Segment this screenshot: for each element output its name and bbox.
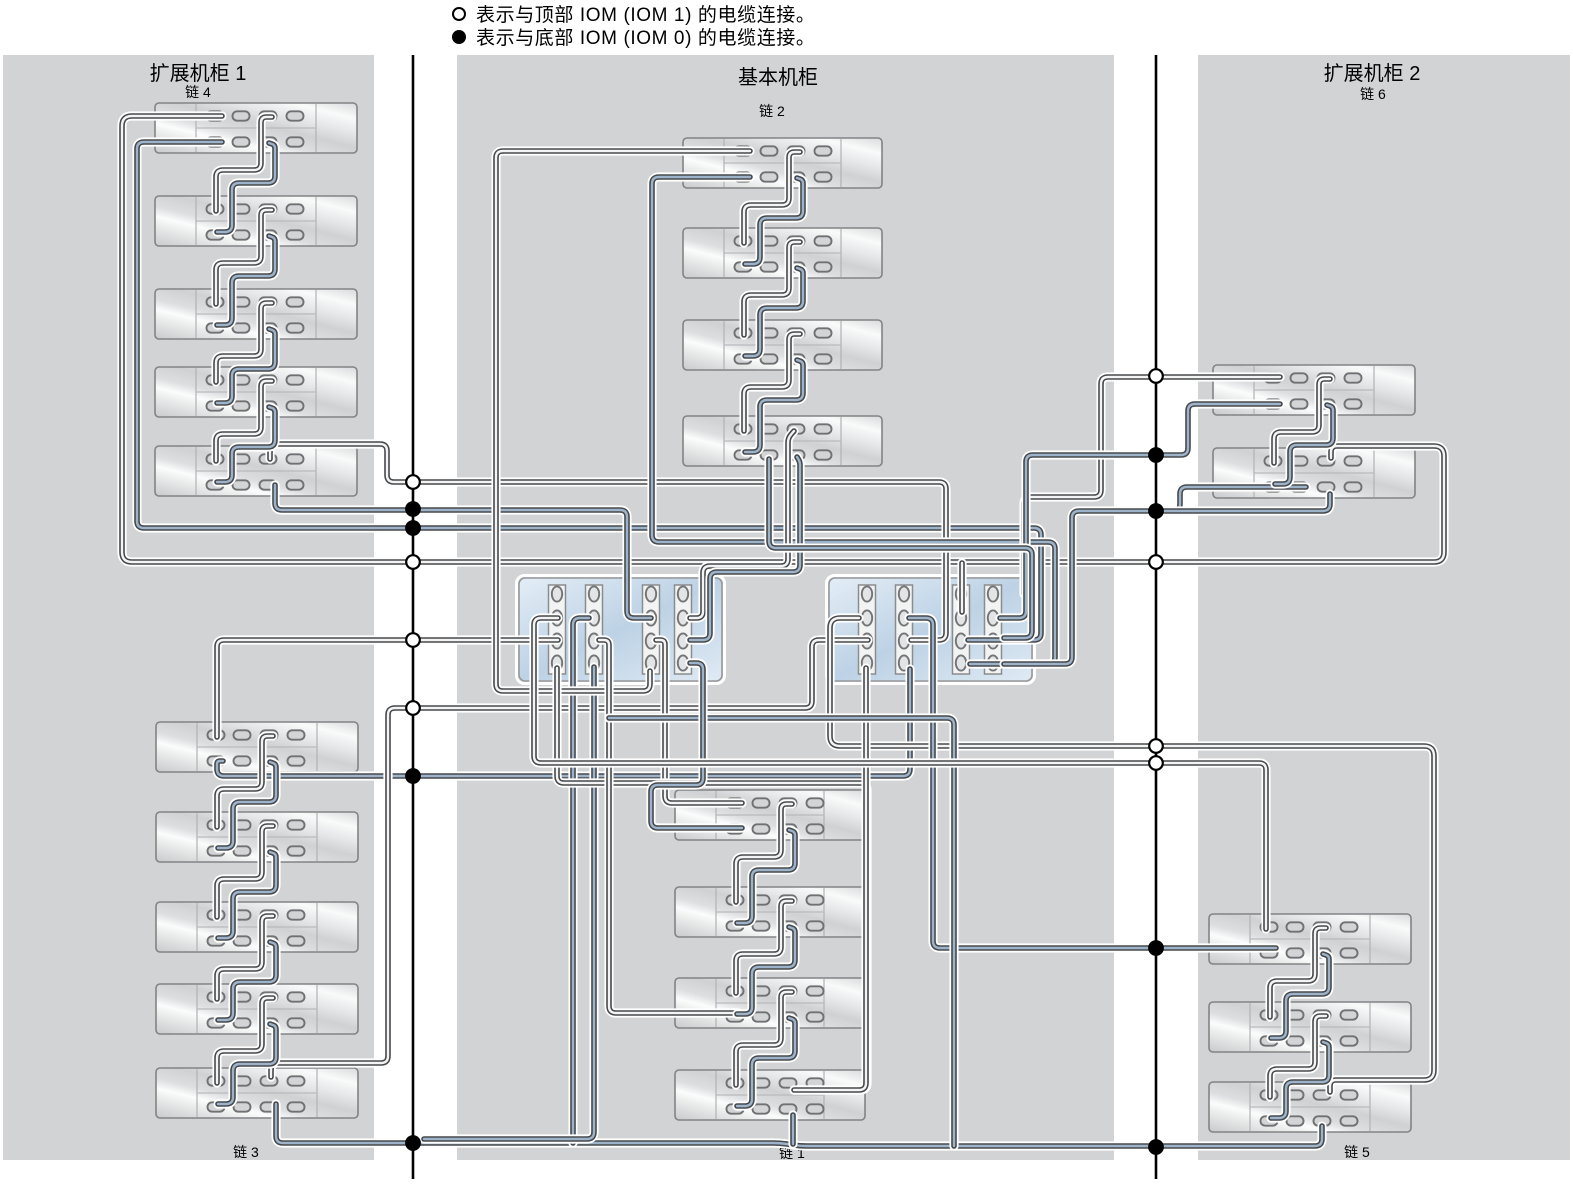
wire chain3 shelf1 IOM0 -> node y776 -> controller2 slot2 port3 [217,669,910,776]
node left boundary y=708 IOM1 [406,701,420,715]
wire chain4 IOM1 shelf1->shelf2 [216,117,272,211]
wire chain2 shelf1 IOM0 -> y542 -> controller2 slot3 port3 [652,177,1055,664]
disk shelf expansion1 chain3 #4 [156,984,358,1034]
wire controller2 slot4 port3 -> node y511 -> chain6 shelf2 IOM0 [1004,487,1306,664]
wire controller2 slot4 -> node y376 -> chain6 shelf1 IOM1 [1024,377,1280,594]
wire chain2 IOM0 shelf1->shelf2 [745,178,803,264]
rack boundary line right [1155,55,1158,1179]
wire chain5 IOM0 shelf1->shelf2 [1271,954,1329,1038]
wire chain2 shelf4 port2 IOM0 -> y548 -> controller2 slot4 port2 [769,459,1032,638]
svg-text:链 3: 链 3 [233,1144,259,1160]
wire controller1 slot3 port2 -> chain1 shelf1 IOM1 [656,640,742,803]
wire chain4 IOM0 shelf4->shelf5 [217,407,275,482]
disk shelf expansion1 chain4 #3 [155,289,357,339]
node left boundary y=482 IOM1 [406,475,420,489]
node right boundary y=763 IOM1 [1149,756,1163,770]
wire chain4 IOM1 shelf3->shelf4 [216,303,272,382]
disk shelf base chain1 #2 [675,887,865,937]
disk shelf expansion1 chain4 #4 [155,367,357,417]
disk shelf base chain2 #3 [683,320,882,370]
disk shelf expansion1 chain3 #2 [156,812,358,862]
wire chain4 shelf5 IOM0 -> y510 -> controller1 slot3 port1 [275,485,651,618]
wire chain3 shelf5 IOM0 -> bottom run y1144 -> chain5 shelf3 IOM0 [276,1104,1322,1146]
wire chain1 IOM1 shelf3->shelf4 [736,992,792,1085]
svg-text:基本机柜: 基本机柜 [738,66,818,89]
svg-text:链 4: 链 4 [185,84,211,100]
wire chain2 shelf4 IOM0 -> controller1 slot4 port2 [690,457,800,640]
node left boundary y=509 IOM0 [406,502,420,516]
disk shelf expansion2 chain5 #1 [1209,914,1411,964]
wire chain4 IOM0 shelf1->shelf2 [217,143,275,232]
wire chain2 IOM1 shelf2->shelf3 [744,242,800,335]
node right boundary y=562 IOM1 [1149,555,1163,569]
wire chain3 IOM1 shelf2->shelf3 [217,826,273,917]
svg-text:链 5: 链 5 [1344,1144,1370,1160]
rack boundary line left [412,55,415,1179]
wire chain2 IOM0 shelf2->shelf3 [745,268,803,356]
wire chain1 IOM1 shelf1->shelf2 [736,804,792,902]
svg-text:链 6: 链 6 [1360,86,1386,102]
wire chain4 IOM0 shelf3->shelf4 [217,329,275,403]
node right boundary y=455 IOM0 [1149,448,1163,462]
svg-text:表示与底部 IOM (IOM 0) 的电缆连接。: 表示与底部 IOM (IOM 0) 的电缆连接。 [476,27,816,49]
disk shelf expansion2 chain6 #2 [1213,448,1415,498]
disk shelf expansion1 chain3 #3 [156,902,358,952]
svg-text:表示与顶部 IOM (IOM 1) 的电缆连接。: 表示与顶部 IOM (IOM 1) 的电缆连接。 [476,4,816,26]
wire controller2 slot2 port1 -> node y948 -> chain5 shelf1 IOM0 [909,618,1276,948]
wire controller1 slot2 port3 -> bottom run [424,667,594,1139]
node left boundary y=640 IOM1 [406,633,420,647]
wire chain6 IOM1 shelf1->shelf2 [1274,379,1330,463]
wire controller2 slot1 port1 -> node y746 -> chain5 shelf3 IOM1 [830,618,1434,1092]
disk shelf expansion1 chain3 #5 [156,1068,358,1118]
wire chain3 IOM0 shelf1->shelf2 [218,762,276,848]
svg-text:扩展机柜 1: 扩展机柜 1 [150,62,247,85]
wire controller1 slot1 port3 -> y783 -> chain1 shelf4 IOM1 [557,668,867,1090]
disk shelf expansion1 chain3 #1 [156,722,358,772]
wire controller2 slot1 port3 -> chain1 shelf4 IOM1 [794,668,866,1090]
wire chain1 shelf4 IOM0 -> bottom run [788,1115,797,1144]
wire chain1 IOM0 shelf3->shelf4 [737,1018,795,1106]
wire controller1 slot4 port3 -> chain1 shelf1 IOM0 [651,663,742,828]
wire chain2 shelf4 IOM1 -> controller1 slot4 port1 [690,431,794,618]
svg-text:扩展机柜 2: 扩展机柜 2 [1324,62,1421,85]
wire controller2 slot4 port1 -> node y455 -> chain6 shelf1 IOM0 [1000,404,1280,618]
svg-text:链 2: 链 2 [759,103,785,119]
wire controller1 slot1 port1 -> node y763 -> chain5 shelf1 IOM1 [534,618,1266,929]
wire chain1 IOM0 shelf1->shelf2 [737,830,795,923]
disk shelf expansion2 chain5 #2 [1209,1002,1411,1052]
node right boundary y=948 IOM0 [1149,941,1163,955]
wire chain6 IOM0 shelf1->shelf2 [1275,405,1333,484]
node left boundary y=562 IOM1 [406,555,420,569]
wire chain5 IOM0 shelf2->shelf3 [1271,1042,1329,1118]
wire chain2 IOM1 shelf3->shelf4 [744,334,800,431]
rack panel expansion cabinet 1 [3,55,374,1160]
wire chain6 shelf2 IOM0 exit -> node y511 [1156,494,1330,511]
wire chain3 IOM1 shelf3->shelf4 [217,916,273,999]
wire chain4 shelf1 IOM0 -> y528 -> controller2 slot3 port2 [137,142,1041,640]
wire controller1 slot2 port1 -> bottom run [573,618,589,1143]
wire chain5 IOM1 shelf2->shelf3 [1270,1016,1326,1097]
legend circle IOM0 [453,31,465,43]
disk shelf base chain2 #2 [683,228,882,278]
node left boundary y=528 IOM0 [406,521,420,535]
wire chain3 IOM0 shelf2->shelf3 [218,852,276,938]
wire chain1 IOM1 shelf2->shelf3 [736,901,792,993]
wire chain3 IOM1 shelf4->shelf5 [217,998,273,1083]
disk shelf base chain2 #4 [683,416,882,466]
wire controller1 slot2 port2 -> chain1 shelf3 IOM0 [599,640,738,1013]
disk shelf expansion1 chain4 #1 [155,103,357,153]
wire chain4 IOM1 shelf2->shelf3 [216,210,272,304]
legend circle IOM1 [453,8,465,20]
disk shelf base chain1 #3 [675,978,865,1028]
disk shelf expansion1 chain4 #2 [155,196,357,246]
wire chain3 shelf1 IOM1 -> node y640 -> controller1 slot1 port2 [217,640,558,737]
wire chain3 shelf5 IOM1 -> node y708 -> controller2 slot1 port2 [271,640,868,1077]
disk shelf base chain2 #1 [683,138,882,188]
disk shelf expansion1 chain4 #5 [155,446,357,496]
wire chain2 IOM0 shelf3->shelf4 [745,360,803,452]
node left boundary y=776 IOM0 [406,769,420,783]
node right boundary y=376 IOM1 [1149,369,1163,383]
wire chain4 shelf5 IOM1 -> y482 -> controller2 slot2 port2 [270,444,946,640]
node right boundary y=511 IOM0 [1149,504,1163,518]
controller U1 (left) [517,576,725,684]
wire stub y562 -> controller2 slot3 port1 [957,563,966,612]
wire chain4 shelf1 IOM1 -> long run y562 -> chain6 loop [122,116,1444,562]
disk shelf expansion2 chain5 #3 [1209,1082,1411,1132]
wire chain3 IOM0 shelf3->shelf4 [218,942,276,1020]
wire y718 run -> bottom run junction [609,718,954,1146]
node right boundary y=1147 IOM0 [1149,1140,1163,1154]
wire chain2 shelf1 IOM1 -> y691 -> controller1 slot3 port3 [496,151,750,691]
wire chain3 IOM1 shelf1->shelf2 [217,736,273,827]
wire chain1 IOM0 shelf2->shelf3 [737,927,795,1014]
node right boundary y=746 IOM1 [1149,739,1163,753]
disk shelf base chain1 #1 [675,790,865,840]
rack panel base cabinet [457,55,1114,1160]
node left boundary y=1143 IOM0 [406,1136,420,1150]
controller U2 (right) [827,576,1035,684]
wire chain2 IOM1 shelf1->shelf2 [744,152,800,243]
rack panel expansion cabinet 2 [1198,55,1570,1160]
wire chain4 IOM0 shelf2->shelf3 [217,236,275,325]
wire chain3 IOM0 shelf4->shelf5 [218,1024,276,1104]
wire chain4 IOM1 shelf4->shelf5 [216,381,272,461]
wire chain5 IOM1 shelf1->shelf2 [1270,928,1326,1017]
disk shelf expansion2 chain6 #1 [1213,365,1415,415]
disk shelf base chain1 #4 [675,1070,865,1120]
